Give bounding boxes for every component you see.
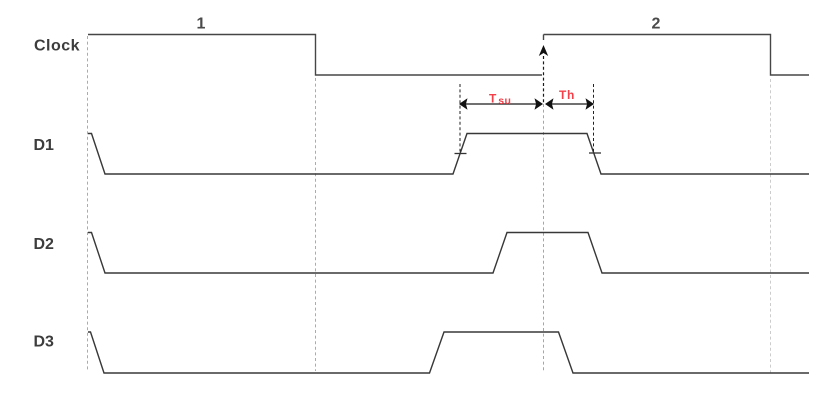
- D3 waveform: [88, 332, 809, 373]
- hash tick on D1 falling edge: [589, 152, 601, 154]
- Tsu left arrowhead: [459, 98, 468, 110]
- hash tick on D1 rising edge: [455, 153, 467, 155]
- Th left arrowhead: [545, 98, 554, 110]
- svg-text:Th: Th: [559, 88, 575, 102]
- clock waveform cycle 2: [544, 35, 810, 76]
- D2 waveform: [88, 233, 809, 274]
- Tsu arrow line: [462, 103, 540, 105]
- clock waveform cycle 1: [88, 35, 542, 76]
- svg-text:D3: D3: [34, 334, 55, 351]
- clock edge arrowhead (up): [539, 45, 548, 56]
- Th right arrowhead: [586, 98, 595, 110]
- svg-text:D1: D1: [34, 137, 55, 154]
- D1 waveform: [88, 134, 809, 175]
- guide line clock rising edge 2 (x=543): [543, 104, 545, 371]
- hold-time dashed tie line (x=593.5): [593, 84, 595, 152]
- Th arrow line: [547, 103, 591, 105]
- svg-text:D2: D2: [34, 236, 55, 253]
- guide line clock falling edge 1 (x=315): [315, 78, 317, 371]
- guide line t0 (x=88): [87, 36, 89, 371]
- svg-text:T: T: [489, 92, 497, 106]
- clock edge arrow shaft (dashed, x=543): [543, 56, 545, 104]
- guide line clock falling edge 2 (x=770): [770, 79, 772, 375]
- svg-text:2: 2: [652, 16, 661, 33]
- setup-time dashed tie line (x=460): [459, 84, 461, 152]
- svg-text:Clock: Clock: [34, 38, 80, 55]
- Tsu right arrowhead: [535, 98, 544, 110]
- svg-text:1: 1: [197, 16, 206, 33]
- svg-text:su: su: [498, 95, 511, 107]
